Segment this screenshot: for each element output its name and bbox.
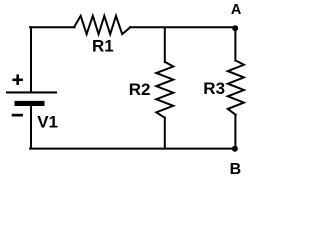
- wire battery negative to bottom-left corner: [30, 106, 32, 149]
- node A: [232, 25, 238, 31]
- wire junction to resistor R2 top: [164, 28, 166, 63]
- battery V1 plus sign: [12, 74, 23, 85]
- svg-text:R3: R3: [203, 79, 225, 98]
- battery V1 minus sign: [12, 114, 23, 117]
- resistor R2: [156, 62, 173, 118]
- resistor R3: [228, 61, 244, 115]
- svg-text:A: A: [231, 2, 242, 18]
- svg-text:R2: R2: [129, 80, 151, 99]
- wire resistor R3 bottom to node B: [234, 115, 236, 149]
- svg-text:B: B: [230, 161, 242, 176]
- battery V1 positive plate: [6, 91, 57, 93]
- wire node A to resistor R3 top: [234, 28, 236, 61]
- resistor R1: [74, 16, 130, 34]
- wire top rail right segment: [130, 26, 236, 28]
- wire bottom rail: [30, 148, 236, 150]
- svg-text:R1: R1: [92, 37, 114, 56]
- node B: [232, 146, 238, 152]
- battery V1 negative plate: [15, 101, 45, 106]
- svg-text:V1: V1: [37, 113, 58, 132]
- wire battery positive to top-left corner: [30, 27, 32, 92]
- wire top rail left segment: [30, 26, 75, 28]
- wire resistor R2 bottom to bottom rail: [164, 118, 166, 149]
